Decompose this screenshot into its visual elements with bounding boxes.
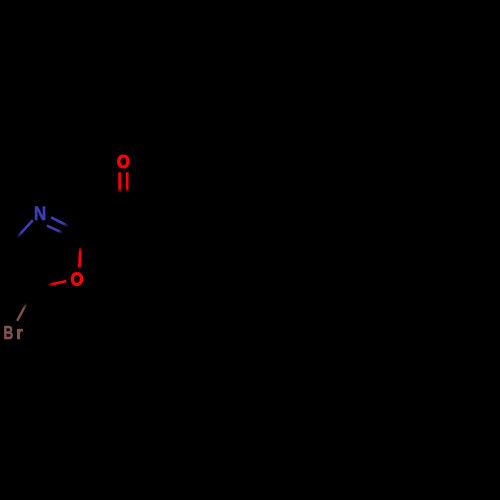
svg-text:r: r bbox=[16, 322, 23, 343]
svg-text:O: O bbox=[117, 151, 130, 172]
svg-text:O: O bbox=[70, 269, 83, 290]
svg-text:N: N bbox=[34, 204, 46, 225]
svg-text:B: B bbox=[4, 322, 14, 343]
